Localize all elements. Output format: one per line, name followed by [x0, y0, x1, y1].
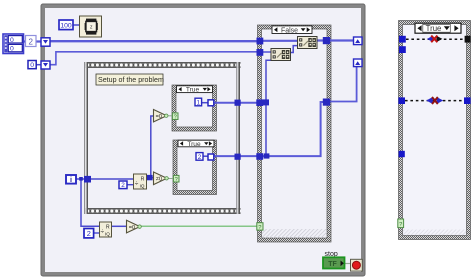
wire cluster to SR1 — [22, 40, 41, 42]
svg-text:≠0: ≠0 — [156, 177, 162, 183]
svg-text:2: 2 — [198, 154, 202, 161]
selector terminal False case — [257, 223, 263, 231]
iteration terminal i — [66, 175, 76, 184]
wire False tunnel2 to index node — [262, 51, 271, 53]
selector terminal CS1 — [172, 113, 178, 120]
cluster constant with two 0 elements — [3, 34, 24, 54]
tunnel on sequence border (i wire) — [84, 176, 91, 183]
tunnel False left top1 — [257, 38, 264, 45]
case structure CS4 (right True case, standalone) — [399, 21, 471, 240]
wire junction up to equal-zero triangle 1 — [151, 116, 154, 178]
broken wire row1 — [406, 36, 465, 43]
wire SR2 to False tunnel 2 — [50, 52, 258, 65]
hatched band at bottom of False case — [262, 229, 328, 238]
wire boolean green from triangle 3 to False case selector — [139, 225, 258, 227]
constant 0 — [28, 61, 36, 70]
equal-zero triangle 3 — [127, 220, 142, 233]
svg-text:=0: =0 — [129, 225, 135, 231]
wait until next ms multiple node — [80, 16, 102, 37]
wire constant 2a to quotient node 1 — [127, 184, 134, 186]
svg-text:Setup of the problem: Setup of the problem — [98, 76, 164, 84]
svg-text:R: R — [141, 177, 145, 183]
index array node (icon1 in False case) — [271, 49, 291, 61]
shift register SR2 left — [41, 61, 50, 69]
wire iteration terminal to sequence tunnel — [76, 178, 85, 180]
constant 2 top-left — [26, 36, 37, 47]
free label Setup of the problem — [96, 74, 164, 85]
svg-text:0: 0 — [10, 46, 14, 53]
junction dot on i wire — [79, 177, 83, 181]
constant 2a near quotient 1 — [119, 181, 127, 189]
constant 100 — [59, 20, 73, 30]
black frame terminal row1 right — [465, 36, 471, 43]
svg-text:R: R — [106, 225, 110, 231]
selector terminal CS2 — [173, 175, 179, 182]
junction dot row2 — [264, 153, 270, 158]
quotient and remainder node 2 — [100, 222, 112, 237]
output tunnel CS2 — [208, 154, 214, 160]
wire CS2 tunnel through False case up to right tunnel — [213, 102, 327, 156]
tunnel sequence right row2 — [235, 154, 241, 160]
stop boolean terminal TF — [323, 257, 345, 268]
output tunnel CS1 — [208, 100, 214, 106]
wire vertical branch inside False case to index node bottom — [266, 60, 273, 156]
svg-text:0: 0 — [10, 37, 14, 44]
sequence structure (Setup frame) — [84, 62, 241, 214]
svg-text:2: 2 — [121, 182, 125, 189]
svg-text:100: 100 — [60, 22, 72, 29]
constant 2b near quotient 2 — [84, 229, 94, 239]
wire triangle 2 output to CS2 selector — [167, 178, 175, 180]
wire triangle 1 output to CS1 selector — [166, 115, 173, 117]
svg-text:?: ? — [175, 177, 178, 183]
svg-text:=0: =0 — [156, 114, 162, 120]
wire constant 1 to CS1 tunnel — [202, 102, 210, 104]
wire branch down from iteration terminal to quotient node 2 — [81, 179, 100, 226]
right case terminal row2 right — [464, 97, 471, 104]
svg-text:2: 2 — [28, 37, 33, 46]
wire inside False case to replace-array node — [262, 40, 298, 42]
svg-text:?: ? — [174, 114, 177, 120]
selector label CS1 True — [177, 86, 213, 94]
wire False right tunnel to SR up2 — [330, 65, 357, 102]
svg-text:True: True — [187, 141, 201, 148]
tunnel sequence right row1 — [235, 100, 241, 106]
right case terminal row2 left — [398, 97, 405, 104]
wire CS1 tunnel to junction in False case — [213, 102, 266, 104]
wire constant 2 to CS2 tunnel — [203, 155, 209, 157]
while loop — [41, 4, 365, 276]
svg-text:1: 1 — [197, 99, 201, 106]
tunnel False left top2 — [257, 49, 264, 56]
svg-text:IQ: IQ — [140, 184, 145, 189]
constant 1 in CS1 — [195, 98, 202, 106]
shift register SR1 left — [41, 38, 50, 46]
selector terminal right True case — [398, 219, 404, 228]
right case terminal row3 left — [399, 151, 405, 157]
tunnel False left row2 — [256, 153, 263, 160]
tunnel False left row1 — [256, 99, 263, 106]
selector label CS2 True — [178, 140, 214, 148]
svg-text:i: i — [70, 175, 72, 184]
replace array subset node (icon2 in False case) — [298, 37, 318, 49]
svg-text:TF: TF — [328, 261, 337, 268]
junction square on vertical wire row1 — [263, 99, 269, 105]
wire index node to replace node — [291, 46, 298, 53]
wire stop TF to conditional terminal — [345, 263, 352, 265]
selector label CS4 True — [415, 23, 461, 33]
wire 100 to wait node — [73, 24, 81, 26]
wire quotient node 1 R output to junction — [146, 177, 154, 179]
shift register up1 right — [354, 37, 363, 45]
tunnel False right row2 — [323, 99, 330, 106]
hatched band at bottom of right True case — [403, 230, 467, 236]
constant 2 in CS2 — [196, 153, 203, 161]
shift register up2 right — [354, 59, 363, 67]
svg-text:0: 0 — [30, 62, 34, 69]
svg-text:True: True — [186, 87, 200, 94]
case structure CS2 (inner True case with 2) — [173, 140, 217, 195]
not-equal-zero triangle 2 — [154, 172, 169, 185]
selector label CS3 False — [272, 26, 312, 34]
wire constant 2b to quotient node 2 — [94, 232, 101, 234]
broken wire row2 — [405, 97, 464, 104]
right case terminal row1 left — [399, 36, 406, 43]
case structure CS1 (inner True case with 1) — [172, 85, 217, 131]
quotient and remainder node 1 — [134, 174, 147, 189]
svg-text:÷: ÷ — [101, 229, 105, 236]
svg-text:÷: ÷ — [135, 181, 139, 188]
right case terminal row1b left — [399, 46, 406, 53]
wire 0 constant to SR2 — [36, 64, 41, 66]
conditional terminal (stop button) — [351, 259, 363, 271]
wire sequence tunnel to quotient node 1 — [90, 178, 134, 180]
equal-zero triangle 1 — [154, 110, 169, 122]
wire quotient node 2 to equal-zero triangle 3 — [111, 225, 127, 227]
wire replace-array node to right tunnel and SR up1 — [316, 39, 355, 41]
svg-text:False: False — [281, 27, 298, 34]
wire SR1 to False tunnel (top array wire) — [50, 40, 258, 42]
svg-text:2: 2 — [87, 229, 91, 238]
case structure CS3 (False case) — [258, 25, 332, 242]
tunnel False right top — [323, 37, 330, 44]
svg-text:True: True — [426, 24, 442, 33]
svg-text:IQ: IQ — [105, 232, 110, 237]
junction square near quotient 1 — [147, 175, 153, 180]
